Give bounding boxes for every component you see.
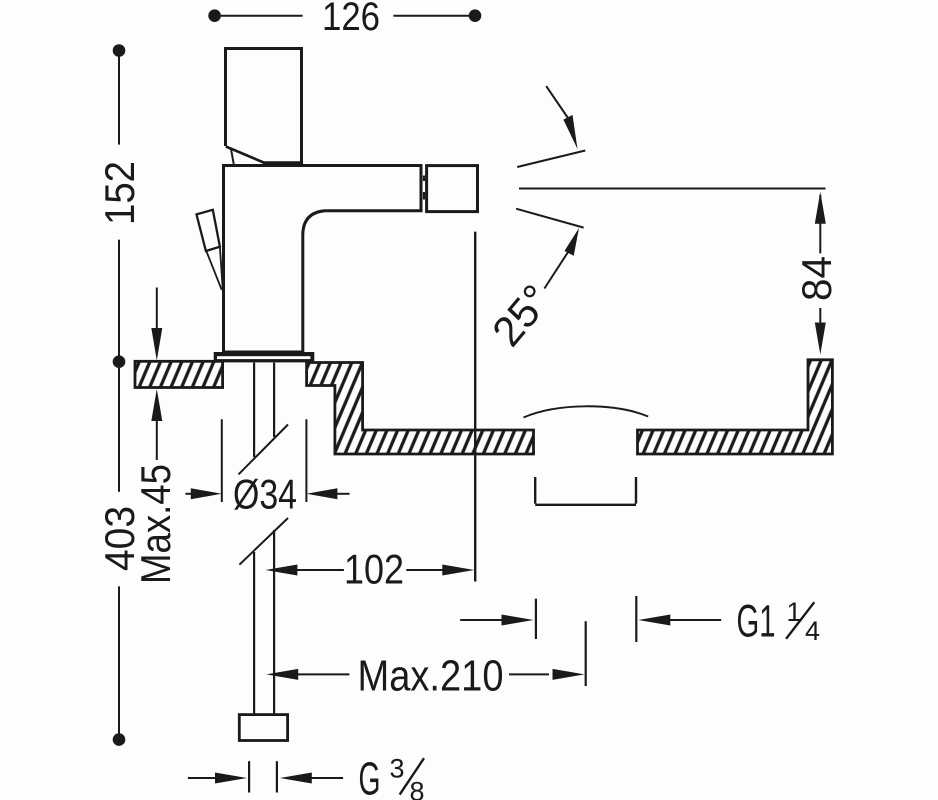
Max.210 right arrowhead <box>553 669 585 680</box>
102 left arrowhead <box>265 565 297 576</box>
aerator <box>427 166 478 212</box>
supply pipe right lower <box>273 530 275 715</box>
groove tick lower <box>423 192 425 200</box>
right ceramic wall hatched section <box>638 360 833 454</box>
Max.45 upper arrowhead pointing down <box>151 328 162 361</box>
Max.45 upper arrow line <box>156 288 158 331</box>
spout reference line <box>519 188 826 190</box>
lower leader arrowhead <box>565 228 580 256</box>
Max.45 lower arrow line <box>156 419 158 460</box>
dimension 102 line right <box>406 569 444 571</box>
handle notch diagonal <box>226 147 266 164</box>
svg-text:84: 84 <box>793 256 840 301</box>
dot top 152 <box>113 44 126 57</box>
svg-text:Max.45: Max.45 <box>132 464 179 584</box>
right ceramic stepped hatched section <box>307 363 534 455</box>
Max.210 left arrowhead <box>266 669 298 680</box>
Max.210 right tick <box>585 621 587 686</box>
G1 1/4 tick right <box>635 596 637 642</box>
G1 1/4 right arrow pointing left <box>638 615 670 626</box>
lever stem line 2 <box>220 247 223 294</box>
dot left of 126 <box>208 9 221 22</box>
Ø34 extension tick left <box>221 419 223 502</box>
G3/8 right arrow <box>280 773 312 784</box>
bowl arc <box>524 406 649 417</box>
84 top arrowhead pointing up <box>815 192 826 224</box>
handle <box>226 49 302 165</box>
lever alternate position <box>197 210 220 251</box>
svg-text:102: 102 <box>344 546 404 593</box>
dot middle shared 152/403 <box>113 355 126 368</box>
G3/8 tick right <box>276 761 278 792</box>
supply nut <box>239 715 287 741</box>
supply pipe left lower <box>253 552 255 715</box>
svg-text:152: 152 <box>96 161 143 225</box>
base flange white stripe <box>217 356 310 359</box>
Ø34 right arrow <box>306 488 337 499</box>
svg-text:G: G <box>359 753 381 800</box>
supply pipe left upper <box>253 363 255 457</box>
G1 1/4 tick left <box>535 599 537 639</box>
dimension 84 line upper <box>819 195 821 253</box>
G3/8 tick left <box>248 761 250 792</box>
dimension line 152/403 vertical segments <box>118 56 120 145</box>
G1 1/4 left arrow pointing right <box>460 619 504 621</box>
G3/8 left arrow <box>188 777 217 779</box>
dimension 84 line lower <box>819 308 821 325</box>
svg-text:3: 3 <box>390 754 405 784</box>
102 right arrowhead <box>442 565 474 576</box>
groove tick upper <box>423 176 425 182</box>
Ø34 extension tick right <box>305 419 307 502</box>
svg-text:126: 126 <box>322 0 380 39</box>
dimension 102 line left <box>295 569 344 571</box>
splash line upper <box>517 151 585 168</box>
splash line lower <box>516 209 584 228</box>
dot right of 126 <box>469 9 482 22</box>
dot bottom 403 <box>113 733 126 746</box>
Ø34 left arrow <box>185 493 193 495</box>
drain bracket <box>535 477 636 505</box>
faucet body <box>224 166 422 353</box>
break slash lower <box>239 518 288 565</box>
svg-text:Ø34: Ø34 <box>233 471 297 518</box>
handle bottom bar <box>263 161 302 164</box>
dimension 126 top line left segment <box>221 15 303 17</box>
upper leader line <box>546 86 568 118</box>
left ceramic hatched section <box>135 361 223 387</box>
Max.45 lower arrowhead pointing up <box>151 389 162 421</box>
svg-text:Max.210: Max.210 <box>358 652 504 701</box>
spout extension line vertical <box>474 232 476 582</box>
dimension Max.210 line right <box>509 673 549 675</box>
lever stem line 1 <box>207 252 222 290</box>
supply pipe right upper <box>273 363 275 437</box>
dimension 126 top line right segment <box>393 15 469 17</box>
base flange <box>214 352 315 362</box>
break slash upper <box>239 425 289 475</box>
svg-text:25°: 25° <box>483 276 560 355</box>
upper leader arrowhead <box>563 115 577 149</box>
svg-text:8: 8 <box>410 777 425 800</box>
svg-text:4: 4 <box>805 616 820 646</box>
svg-text:G1: G1 <box>737 596 776 647</box>
handle notch vertical <box>231 148 234 165</box>
dimension Max.210 line left <box>296 673 349 675</box>
84 bottom arrowhead pointing down <box>815 323 826 355</box>
lower leader line <box>544 250 569 288</box>
